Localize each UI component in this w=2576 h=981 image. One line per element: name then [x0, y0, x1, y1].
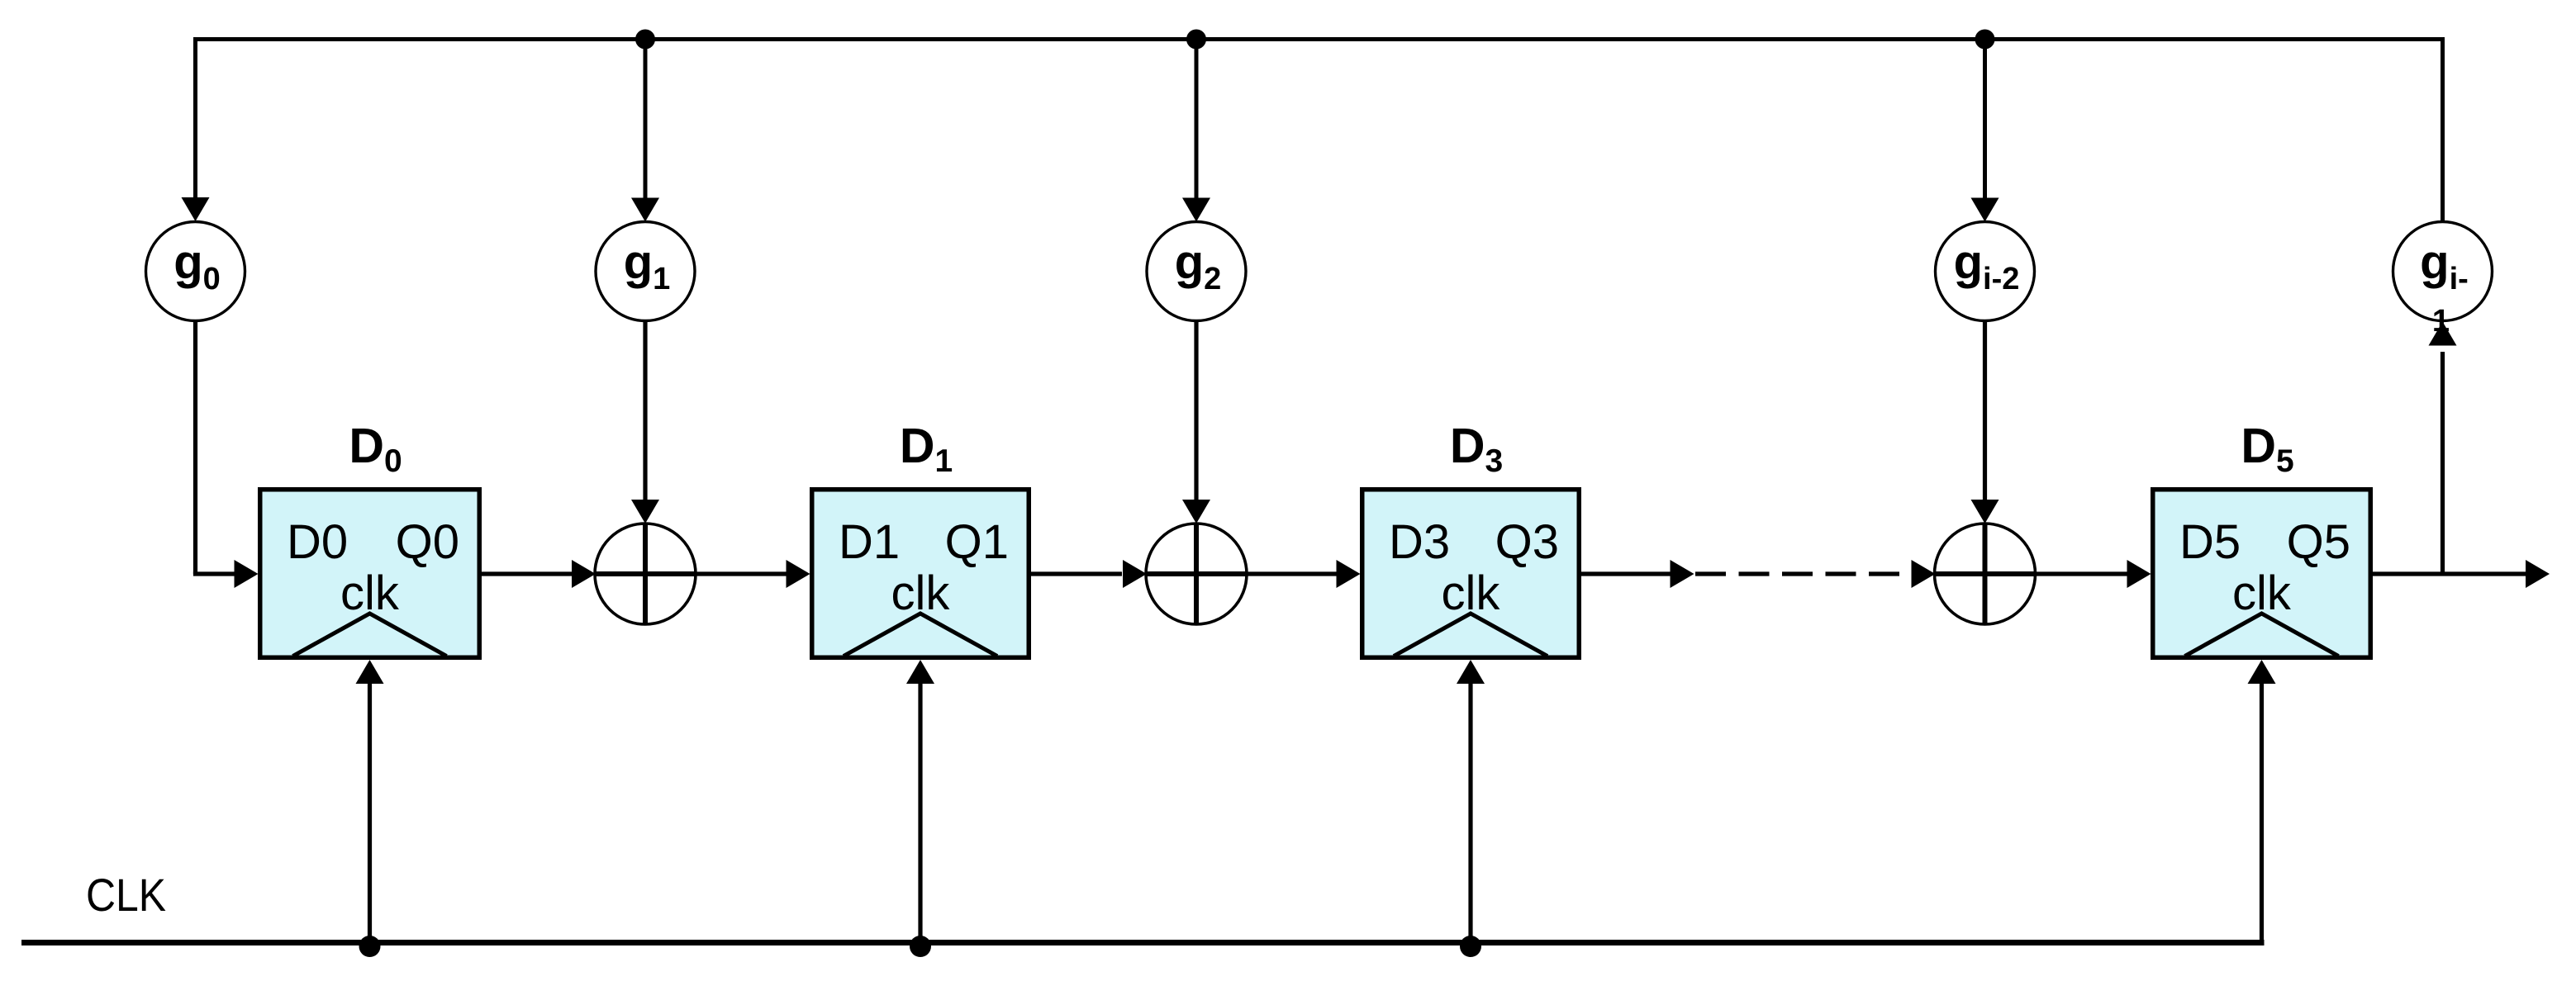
arrowhead into D5 input: [2127, 560, 2151, 588]
arrowhead clock into D0: [356, 660, 384, 684]
wire: top feedback bus: [193, 37, 2445, 41]
wire: left feedback drop to g0: [193, 37, 197, 199]
arrowhead into D3 input: [1337, 560, 1361, 588]
wire: g1 output down to xor adder 1: [643, 321, 647, 502]
wire: clock stem to D3: [1468, 684, 1472, 943]
wire: clock stem to D1: [918, 684, 922, 943]
flip-flop D0 box: [260, 490, 480, 658]
wire: tap drop to g1: [644, 40, 648, 200]
node: junction dot on CLK bus under D1: [910, 936, 931, 957]
node: junction dot above g2: [1186, 30, 1206, 50]
wire: g0 output down-left to D0 input: [193, 321, 197, 575]
svg-text:D1: D1: [900, 419, 953, 479]
svg-text:D3: D3: [1389, 515, 1450, 569]
xor adder A1: [595, 524, 696, 624]
wire: clock stem to D0: [368, 684, 372, 943]
wire: Q5 output line: [2373, 571, 2526, 576]
svg-text:Q3: Q3: [1495, 515, 1559, 569]
wire: gi-2 output down to xor adder 3: [1983, 321, 1987, 502]
svg-text:D1: D1: [839, 515, 900, 569]
arrowhead into D0 input: [235, 560, 259, 588]
arrowhead into g1: [631, 198, 659, 222]
wire: output branch up into gi-1: [2441, 352, 2445, 574]
flip-flop D3 box: [1362, 490, 1580, 658]
wire: Q0 to xor adder 1: [482, 571, 572, 576]
svg-text:Q0: Q0: [396, 515, 459, 569]
arrowhead up into gi-1: [2429, 322, 2457, 346]
xor adder A3: [1935, 524, 2036, 624]
wire: xor adder 2 to D3 input: [1247, 571, 1337, 576]
svg-text:D5: D5: [2241, 419, 2293, 479]
arrowhead mid continuation: [1671, 560, 1694, 588]
svg-text:D0: D0: [349, 419, 402, 479]
wire: g2 output down to xor adder 2: [1194, 321, 1198, 502]
svg-text:CLK: CLK: [86, 869, 166, 921]
node: junction dot above g1: [635, 30, 655, 50]
arrowhead clock into D5: [2248, 660, 2276, 684]
arrowhead clock into D1: [906, 660, 934, 684]
wire: Q3 output solid segment: [1581, 571, 1671, 576]
arrowhead into xor adder 3: [1971, 500, 1999, 524]
flip-flop D1 box: [812, 490, 1029, 658]
arrowhead into xor adder 3 left: [1912, 560, 1936, 588]
wire: xor adder 3 to D5 input: [2036, 571, 2128, 576]
flip-flop D5 box: [2153, 490, 2371, 658]
xor adder A2: [1146, 524, 1247, 624]
svg-text:Q5: Q5: [2287, 515, 2350, 569]
arrowhead into gi-2: [1971, 198, 1999, 222]
arrowhead into xor adder 1: [631, 500, 659, 524]
arrowhead clock into D3: [1457, 660, 1485, 684]
wire: right feedback riser from output to top bus: [2441, 37, 2445, 223]
wire: xor adder 1 to D1 input: [696, 571, 787, 576]
node: junction dot on CLK bus under D3: [1460, 936, 1481, 957]
wire: Q1 to xor adder 2: [1031, 571, 1122, 576]
wire: tap drop to g2: [1195, 40, 1199, 200]
multiplier tap g2: [1147, 222, 1246, 321]
svg-text:D5: D5: [2179, 515, 2241, 569]
arrowhead scrambler output: [2526, 560, 2550, 588]
svg-text:D3: D3: [1450, 419, 1503, 479]
arrowhead into D1 input: [787, 560, 810, 588]
wire: CLK bus: [21, 940, 2265, 945]
arrowhead into g0: [182, 197, 210, 221]
multiplier tap g1: [596, 222, 695, 321]
arrowhead into xor adder 1 left: [572, 560, 596, 588]
wire: tap drop to gi-2: [1983, 40, 1987, 200]
arrowhead into xor adder 2 left: [1123, 560, 1147, 588]
svg-text:Q1: Q1: [945, 515, 1009, 569]
multiplier tap g0: [146, 222, 245, 321]
multiplier tap gi-2: [1936, 222, 2035, 321]
node: junction dot on CLK bus under D0: [359, 936, 381, 957]
wire: clock stem to D5: [2260, 684, 2264, 945]
svg-text:D0: D0: [287, 515, 348, 569]
arrowhead into g2: [1182, 198, 1210, 222]
wire: dashed continuation segment: [1695, 571, 1911, 576]
multiplier tap gi-: [2393, 222, 2493, 321]
arrowhead into xor adder 2: [1182, 500, 1210, 524]
node: junction dot above gi-2: [1975, 30, 1995, 50]
